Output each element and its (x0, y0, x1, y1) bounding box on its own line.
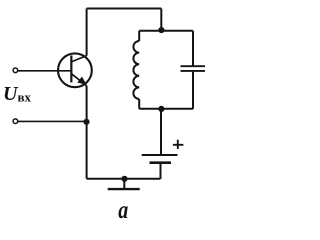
wire: lower input wire (18, 120, 87, 122)
wire: battery top lead (160, 109, 162, 154)
wire: tank top horizontal (139, 30, 193, 32)
wire: collector vertical (86, 9, 88, 56)
wire: tank bottom horizontal (139, 108, 193, 110)
svg-text:a: a (118, 196, 128, 222)
transistor VT emitter arrowhead (78, 77, 86, 84)
capacitor C (181, 66, 206, 71)
node: emitter / input junction dot (83, 119, 89, 125)
label Uvx (3, 83, 32, 105)
svg-text:вх: вх (18, 89, 32, 104)
transistor VT base bar (70, 56, 72, 83)
node: tank top junction dot (158, 27, 164, 33)
transistor VT emitter lead (71, 73, 87, 86)
wire: bottom return wire (87, 178, 161, 180)
wire: emitter vertical (86, 86, 88, 179)
ground (108, 179, 140, 189)
wire: top rail from collector to tank (87, 8, 162, 10)
wire: upper input wire (18, 70, 71, 72)
wire: battery bottom lead (160, 164, 162, 179)
caption a (118, 196, 128, 224)
battery E: long positive plate (142, 154, 178, 156)
terminal: upper input (13, 68, 18, 73)
node: tank bottom junction dot (158, 106, 164, 112)
label: plus sign (173, 140, 184, 149)
battery E: short negative plate (150, 161, 172, 164)
wire: tank top drop (160, 9, 162, 31)
terminal: lower input (13, 119, 18, 124)
transistor VT collector lead (71, 56, 87, 62)
node: ground junction dot (121, 176, 127, 182)
transistor VT (NPN) body circle (58, 53, 92, 87)
wire: capacitor top lead (192, 31, 194, 66)
wire: capacitor bottom lead (192, 72, 194, 109)
inductor L (5 turns) (133, 31, 139, 109)
